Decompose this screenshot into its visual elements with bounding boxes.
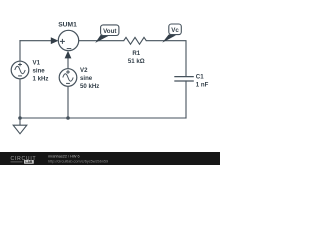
footer bar	[0, 152, 220, 165]
svg-text:R1: R1	[132, 50, 140, 57]
net flag Vc	[162, 24, 181, 43]
voltage source V1	[11, 61, 29, 79]
svg-text:C1: C1	[196, 74, 204, 81]
summer SUM1	[58, 30, 78, 50]
capacitor C1	[174, 77, 194, 81]
svg-text:SUM1: SUM1	[58, 22, 77, 29]
resistor R1	[124, 37, 147, 44]
node junction at ground	[18, 116, 22, 120]
wire bottom rail	[20, 117, 186, 119]
wire top-left horizontal	[20, 40, 53, 42]
svg-text:sine: sine	[80, 75, 93, 82]
svg-text:1 kHz: 1 kHz	[33, 75, 49, 82]
wire V2 bottom to bottom rail	[67, 86, 69, 118]
net flag Vout	[95, 25, 119, 43]
arrowhead into SUM1 left	[51, 37, 59, 44]
svg-text:51 kΩ: 51 kΩ	[128, 58, 145, 65]
svg-text:mrahhas22 / HW 6: mrahhas22 / HW 6	[48, 155, 80, 159]
wire left vertical	[19, 41, 21, 62]
wire V2 top to SUM1	[67, 57, 69, 69]
svg-text:1 nF: 1 nF	[196, 81, 209, 88]
svg-text:Vc: Vc	[171, 27, 179, 34]
ground	[13, 118, 27, 134]
wire SUM1 output to resistor	[79, 40, 124, 42]
svg-text:V2: V2	[80, 67, 88, 74]
svg-text:sine: sine	[33, 67, 46, 74]
svg-text:50 kHz: 50 kHz	[80, 83, 99, 90]
svg-text:LAB: LAB	[25, 160, 33, 164]
wire capacitor bottom to rail	[185, 81, 187, 118]
svg-text:Vout: Vout	[103, 28, 116, 35]
arrowhead into SUM1 bottom	[65, 51, 72, 59]
node junction V2 bottom	[66, 116, 70, 120]
wire resistor to corner and down to capacitor	[146, 41, 186, 77]
svg-text:V1: V1	[33, 59, 41, 66]
voltage source V2	[59, 69, 77, 87]
svg-text:http://circuitlab.com/c/6yc5w2: http://circuitlab.com/c/6yc5w2bbn59	[48, 159, 108, 163]
wire V1 bottom to bottom rail	[19, 79, 21, 118]
